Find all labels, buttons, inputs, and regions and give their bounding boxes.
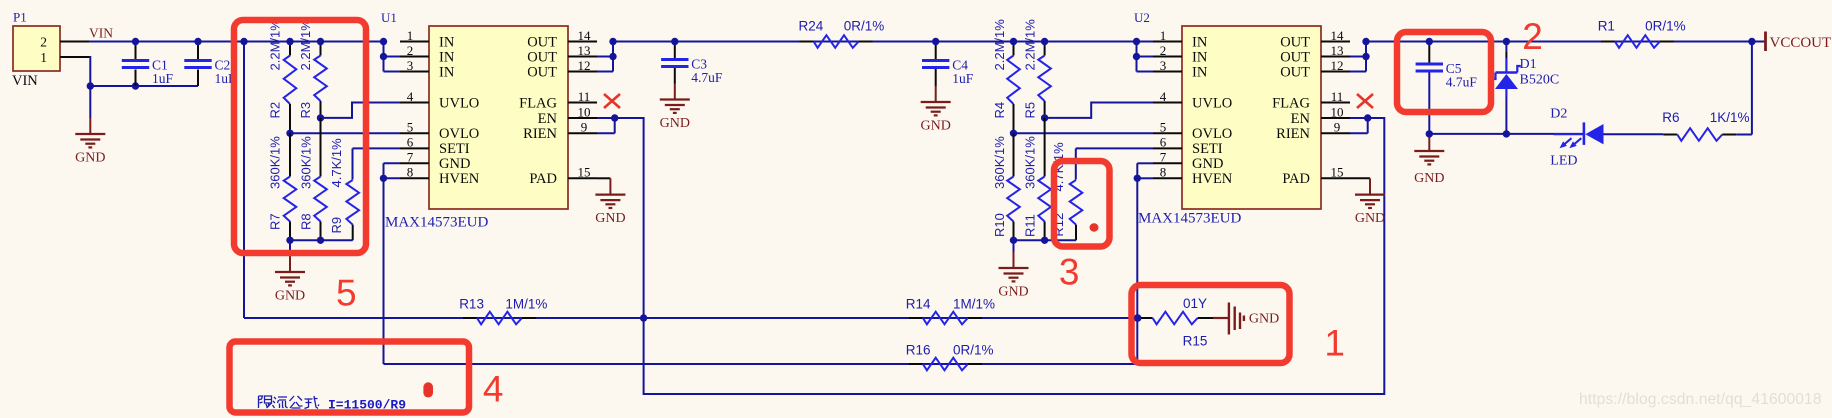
svg-text:360K/1%: 360K/1% <box>299 136 314 189</box>
wire pin1 down <box>89 57 90 86</box>
resistor R11 <box>1022 118 1051 240</box>
resistor R7 <box>268 133 297 240</box>
wire OVLO net right <box>1014 132 1154 134</box>
capacitor C3 <box>661 57 723 86</box>
svg-text:R1: R1 <box>1598 19 1615 34</box>
wire C1 stem <box>135 42 137 60</box>
wire VCCOUT vertical <box>1751 42 1753 135</box>
svg-text:IN: IN <box>439 49 455 65</box>
ground under C3 <box>660 84 690 132</box>
svg-text:360K/1%: 360K/1% <box>992 136 1007 189</box>
svg-text:B520C: B520C <box>1520 73 1560 88</box>
resistor R10 <box>992 133 1020 240</box>
svg-text:GND: GND <box>75 151 105 166</box>
annotation box 1 <box>1132 285 1290 363</box>
wire LED rail <box>1429 133 1584 135</box>
wire to GND <box>89 86 91 118</box>
svg-text:4.7K/1%: 4.7K/1% <box>329 138 344 188</box>
svg-text:OUT: OUT <box>527 64 557 80</box>
svg-text:6: 6 <box>407 135 414 150</box>
svg-text:RIEN: RIEN <box>523 126 557 142</box>
wire C4 stem <box>935 42 937 60</box>
annotation capsule in box 4 <box>423 382 433 397</box>
svg-text:https://blog.csdn.net/qq_41600: https://blog.csdn.net/qq_41600018 <box>1579 391 1822 408</box>
capacitor C1 <box>122 58 174 87</box>
svg-text:OVLO: OVLO <box>1192 126 1232 142</box>
wire SETI net right <box>1076 147 1153 149</box>
svg-text:13: 13 <box>578 43 591 58</box>
svg-text:HVEN: HVEN <box>439 171 480 187</box>
svg-text:LED: LED <box>1550 154 1577 169</box>
svg-text:6: 6 <box>1160 135 1167 150</box>
LED D2 <box>1550 107 1603 169</box>
wire EN net U1 to U2 <box>615 118 1385 394</box>
svg-text:1: 1 <box>40 50 47 65</box>
svg-text:MAX14573EUD: MAX14573EUD <box>1138 211 1241 227</box>
svg-text:IN: IN <box>439 34 455 50</box>
svg-text:10: 10 <box>1331 104 1344 119</box>
svg-text:4.7uF: 4.7uF <box>691 70 723 85</box>
svg-text:15: 15 <box>1331 165 1344 180</box>
svg-text:D2: D2 <box>1550 107 1567 122</box>
svg-text:EN: EN <box>538 111 558 127</box>
svg-text:2.2M/1%: 2.2M/1% <box>268 19 283 71</box>
power port VCCOUT <box>1766 32 1832 52</box>
P1 pin 2 stub <box>60 41 89 43</box>
svg-text:GND: GND <box>998 285 1028 300</box>
wire C5 stem <box>1428 42 1430 63</box>
resistor R5 <box>1022 19 1051 119</box>
svg-text:R16: R16 <box>906 342 931 357</box>
svg-text:OUT: OUT <box>1280 34 1310 50</box>
svg-text:MAX14573EUD: MAX14573EUD <box>385 215 488 231</box>
svg-text:4: 4 <box>1160 89 1167 104</box>
svg-text:R3: R3 <box>298 102 313 119</box>
annotation dot in box 3 <box>1090 223 1099 231</box>
wire R16 line <box>384 363 1138 365</box>
ground U2 PAD <box>1355 178 1385 226</box>
svg-text:SETI: SETI <box>1192 141 1223 157</box>
wire C2 stem <box>197 42 199 60</box>
svg-text:IN: IN <box>1192 34 1208 50</box>
wire long vertical to R13 <box>243 42 245 319</box>
svg-text:R15: R15 <box>1183 334 1208 349</box>
wire VIN rail to U1 <box>89 41 384 43</box>
resistor R1 <box>1598 19 1686 48</box>
svg-text:1M/1%: 1M/1% <box>953 296 995 311</box>
svg-text:GND: GND <box>1355 211 1385 226</box>
resistor R24 <box>799 19 885 48</box>
svg-text:0R/1%: 0R/1% <box>844 19 885 34</box>
resistor R8 <box>299 118 327 240</box>
ground under C4 <box>921 86 951 134</box>
wire R6 to VCCOUT vertical <box>1736 134 1752 136</box>
op-amp U1 MAX14573EUD <box>380 10 619 231</box>
wire LED to R6 <box>1604 133 1664 135</box>
svg-text:0R/1%: 0R/1% <box>1645 19 1686 34</box>
svg-text:OUT: OUT <box>1280 49 1310 65</box>
svg-text:12: 12 <box>578 58 591 73</box>
wire UVLO net right <box>1045 103 1153 118</box>
wire OUT rail <box>613 41 1153 43</box>
no-connect X on U2 pin 11 FLAG <box>1357 94 1373 108</box>
svg-text:15: 15 <box>578 165 591 180</box>
svg-text:IN: IN <box>1192 49 1208 65</box>
svg-text:1uF: 1uF <box>952 71 974 86</box>
wire R13 R14 line <box>244 317 1137 319</box>
svg-text:OUT: OUT <box>527 34 557 50</box>
svg-text:1: 1 <box>407 28 414 43</box>
resistor R6 <box>1662 110 1749 141</box>
svg-text:GND: GND <box>595 211 625 226</box>
svg-text:R4: R4 <box>992 102 1007 119</box>
svg-text:FLAG: FLAG <box>519 95 557 111</box>
wire U1 GND HVEN down <box>384 162 401 164</box>
svg-text:8: 8 <box>407 165 414 180</box>
svg-text:R9: R9 <box>329 217 344 234</box>
svg-text:9: 9 <box>1334 120 1341 135</box>
wire OUT rail right <box>1366 41 1765 43</box>
svg-text:R14: R14 <box>906 296 931 311</box>
svg-text:3: 3 <box>1160 58 1167 73</box>
svg-text:1M/1%: 1M/1% <box>505 296 547 311</box>
resistor R16 <box>906 342 994 370</box>
svg-text:2: 2 <box>40 35 47 50</box>
svg-text:VIN: VIN <box>89 26 113 41</box>
junction dot at R15 tee <box>1134 314 1141 321</box>
ground under R7 R8 R9 <box>275 256 305 304</box>
svg-text:GND: GND <box>1192 156 1223 172</box>
svg-text:R10: R10 <box>992 213 1007 237</box>
svg-text:VIN: VIN <box>12 73 38 89</box>
svg-text:4.7uF: 4.7uF <box>1446 75 1478 90</box>
resistor R13 <box>459 296 547 324</box>
svg-text:FLAG: FLAG <box>1272 95 1310 111</box>
svg-text:GND: GND <box>439 156 470 172</box>
svg-text:R8: R8 <box>299 213 314 230</box>
svg-text:U2: U2 <box>1134 10 1150 25</box>
svg-text:2.2M/1%: 2.2M/1% <box>992 19 1007 71</box>
svg-text:7: 7 <box>1160 150 1167 165</box>
resistor R14 <box>906 296 995 324</box>
wire resistor bottoms right <box>1014 239 1077 241</box>
resistor R15 <box>1137 296 1213 349</box>
svg-text:360K/1%: 360K/1% <box>1022 136 1037 189</box>
svg-text:2: 2 <box>407 43 414 58</box>
svg-text:1: 1 <box>1324 323 1345 364</box>
resistor R3 <box>298 19 327 119</box>
svg-text:PAD: PAD <box>529 171 557 187</box>
svg-text:RIEN: RIEN <box>1276 126 1310 142</box>
svg-text:1K/1%: 1K/1% <box>1710 110 1750 125</box>
svg-text:360K/1%: 360K/1% <box>268 136 283 189</box>
svg-text:VCCOUT: VCCOUT <box>1770 35 1832 51</box>
svg-text:2.2M/1%: 2.2M/1% <box>298 19 313 71</box>
resistor R9 <box>329 138 359 240</box>
wire SETI net left <box>353 147 401 149</box>
signal ground GND <box>1213 303 1279 335</box>
svg-text:R2: R2 <box>268 102 283 119</box>
svg-text:D1: D1 <box>1520 57 1537 72</box>
svg-text:R7: R7 <box>268 213 283 230</box>
capacitor C2 <box>184 58 236 87</box>
capacitor C5 <box>1416 61 1478 90</box>
wire C5 bottom to GND <box>1428 134 1430 137</box>
svg-text:9: 9 <box>581 120 588 135</box>
svg-text:R11: R11 <box>1022 214 1037 237</box>
svg-text:OVLO: OVLO <box>439 126 479 142</box>
capacitor C4 <box>922 58 974 87</box>
annotation box 3 <box>1054 161 1110 247</box>
svg-text:GND: GND <box>1414 171 1444 186</box>
svg-text:10: 10 <box>578 104 591 119</box>
svg-text:1: 1 <box>1160 28 1167 43</box>
wire U2 PAD stub <box>1350 177 1370 179</box>
svg-text:01Y: 01Y <box>1183 296 1207 311</box>
svg-text:0R/1%: 0R/1% <box>953 342 994 357</box>
connector P1 <box>12 10 60 90</box>
svg-text:8: 8 <box>1160 165 1167 180</box>
no-connect X on U1 pin 11 FLAG <box>604 94 620 108</box>
diode D1 B520C <box>1492 42 1559 134</box>
svg-text:3: 3 <box>1059 252 1080 293</box>
svg-text:11: 11 <box>1331 89 1344 104</box>
annotation box 5 <box>234 20 366 253</box>
svg-text:5: 5 <box>407 120 414 135</box>
svg-text:GND: GND <box>660 116 690 131</box>
wire OVLO net <box>290 132 400 134</box>
svg-text:EN: EN <box>1291 111 1311 127</box>
svg-text:OUT: OUT <box>527 49 557 65</box>
resistor R12 <box>1051 142 1083 240</box>
ground U1 PAD <box>595 178 625 226</box>
wire U1 PAD stub <box>597 177 610 179</box>
wire U2 GND HVEN down <box>1137 162 1153 164</box>
svg-text:2.2M/1%: 2.2M/1% <box>1022 19 1037 71</box>
op-amp U2 MAX14573EUD <box>1133 10 1372 227</box>
svg-text:GND: GND <box>1249 312 1279 327</box>
ground under P1 <box>75 118 105 166</box>
annotation box 4 <box>230 342 470 413</box>
svg-text:3: 3 <box>407 58 414 73</box>
svg-text:GND: GND <box>275 289 305 304</box>
wire cap bottom rail <box>90 85 198 87</box>
svg-text:4: 4 <box>407 89 414 104</box>
wire UVLO net <box>321 103 401 118</box>
svg-text:1uF: 1uF <box>152 71 174 86</box>
svg-text:HVEN: HVEN <box>1192 171 1233 187</box>
ground under C5 <box>1414 137 1444 186</box>
svg-text:R24: R24 <box>799 19 824 34</box>
resistor R4 <box>992 19 1020 134</box>
wire resistor bottoms <box>290 239 353 241</box>
svg-text:GND: GND <box>921 119 951 134</box>
svg-text:2: 2 <box>1160 43 1167 58</box>
P1 pin 1 stub <box>60 56 89 58</box>
svg-text:SETI: SETI <box>439 141 470 157</box>
annotation box 2 <box>1397 32 1491 112</box>
svg-text:14: 14 <box>578 28 592 43</box>
wire C3 stem <box>674 42 676 59</box>
svg-text:U1: U1 <box>381 10 397 25</box>
svg-text:14: 14 <box>1331 28 1345 43</box>
svg-text:R6: R6 <box>1662 110 1679 125</box>
svg-text:R5: R5 <box>1022 102 1037 119</box>
svg-text:11: 11 <box>578 89 591 104</box>
svg-text:IN: IN <box>439 64 455 80</box>
svg-text:12: 12 <box>1331 58 1344 73</box>
svg-text:7: 7 <box>407 150 414 165</box>
ground under R10 R11 R12 <box>998 252 1028 300</box>
wire to GND below box5 <box>289 240 291 258</box>
resistor R2 <box>268 19 297 134</box>
note limit-current formula <box>259 396 407 413</box>
svg-text:5: 5 <box>336 273 357 314</box>
svg-text:P1: P1 <box>13 10 27 25</box>
svg-text:2: 2 <box>1522 16 1543 57</box>
svg-text:UVLO: UVLO <box>439 95 479 111</box>
svg-text:5: 5 <box>1160 120 1167 135</box>
svg-text:IN: IN <box>1192 64 1208 80</box>
svg-text:13: 13 <box>1331 43 1344 58</box>
svg-text:UVLO: UVLO <box>1192 95 1232 111</box>
svg-text:R13: R13 <box>459 296 484 311</box>
svg-text:4: 4 <box>483 369 504 410</box>
wire to GND under R10 <box>1013 240 1015 254</box>
svg-text:OUT: OUT <box>1280 64 1310 80</box>
svg-text:PAD: PAD <box>1282 171 1310 187</box>
